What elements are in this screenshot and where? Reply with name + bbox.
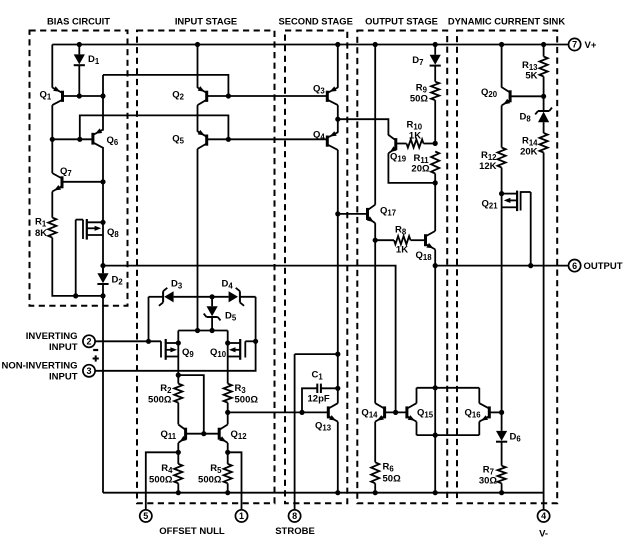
wire R8 left lead bbox=[375, 239, 394, 241]
transistor Q21 bbox=[502, 191, 531, 212]
wire Q10 gate lead bbox=[245, 340, 255, 342]
dashed box OUTPUT STAGE bbox=[357, 31, 447, 504]
label Q19 bbox=[390, 152, 407, 164]
label R6 bbox=[383, 462, 395, 474]
wire strobe vertical to pin 8 bbox=[294, 354, 296, 509]
label Q9 bbox=[182, 347, 194, 359]
wire R8 to Q18 base bbox=[411, 239, 426, 241]
node Q12 emitter / offset null bbox=[225, 450, 230, 455]
dashed box DYNAMIC CURRENT SINK bbox=[457, 31, 557, 504]
svg-text:1K: 1K bbox=[409, 131, 421, 142]
label D8 bbox=[520, 112, 532, 124]
transistor Q10 bbox=[228, 339, 246, 360]
node C1 left plate tap bbox=[299, 410, 304, 415]
wire Q16 base node to D6 bbox=[501, 412, 503, 431]
svg-text:30Ω: 30Ω bbox=[479, 476, 498, 487]
dashed box BIAS CIRCUIT bbox=[30, 31, 128, 306]
svg-text:DYNAMIC CURRENT SINK: DYNAMIC CURRENT SINK bbox=[448, 16, 565, 27]
wire Q9 column from source bar to R2 bbox=[177, 331, 179, 384]
wire Q21 source column down to Q16 base bbox=[501, 194, 503, 413]
wire Q18 emitter to output bbox=[434, 249, 436, 265]
svg-text:8K: 8K bbox=[35, 228, 47, 239]
svg-text:12pF: 12pF bbox=[308, 394, 330, 405]
svg-text:50Ω: 50Ω bbox=[410, 94, 429, 105]
wire R4 bottom to V- rail bbox=[177, 483, 179, 492]
label INPUT (inverting) bbox=[49, 342, 78, 353]
resistor R5 bbox=[224, 464, 232, 483]
diode D5 bbox=[204, 306, 221, 320]
label Q5 bbox=[172, 134, 184, 146]
label D4 bbox=[222, 279, 234, 291]
label Q2 bbox=[172, 90, 184, 102]
node Q7 base junction bbox=[100, 179, 105, 184]
node Q17 base junction bbox=[335, 211, 340, 216]
wire Q15 emitter to clamp bottom rail bbox=[416, 422, 418, 436]
node R2 / mirror base takeoff bbox=[176, 373, 181, 378]
wire inverting input to Q9 gate bbox=[95, 340, 161, 342]
label R5 value 500ohm bbox=[198, 475, 222, 486]
resistor R1 bbox=[48, 218, 56, 238]
transistor Q3 bbox=[327, 86, 338, 105]
wire C1 right lead bbox=[321, 387, 338, 389]
wire bias node to Q2 base loop bbox=[103, 75, 228, 96]
node Q5 base junction bbox=[226, 137, 231, 142]
wire clamp bottom rail bbox=[417, 434, 480, 436]
wire non-inverting input to Q10 gate node bbox=[95, 341, 255, 371]
diode D8 bbox=[535, 96, 552, 133]
diode D3 bbox=[159, 288, 174, 306]
wire Q4 collector node down to second stage bbox=[337, 214, 339, 354]
wire Q17 collector from rail bbox=[374, 45, 376, 205]
transistor Q9 bbox=[161, 339, 178, 360]
node Q8 gate on bias bottom rail bbox=[73, 293, 78, 298]
wire D2 node to Q14/Q15 base column bbox=[103, 266, 396, 413]
node Q5 current into source bar bbox=[195, 328, 200, 333]
label Q11 bbox=[161, 429, 177, 441]
dashed box INPUT STAGE bbox=[137, 31, 275, 504]
wire Q16 emitter to clamp bottom bbox=[478, 422, 480, 436]
wire Q15 collector to clamp top rail bbox=[416, 388, 418, 404]
label R10 bbox=[407, 120, 423, 132]
svg-text:50Ω: 50Ω bbox=[383, 474, 402, 485]
resistor R12 bbox=[498, 148, 506, 168]
svg-text:6: 6 bbox=[572, 261, 577, 271]
resistor R2 bbox=[174, 384, 182, 403]
transistor Q14 bbox=[375, 403, 384, 421]
wire Q5 collector down to input pair bbox=[197, 149, 199, 331]
label minus sign bbox=[93, 349, 98, 351]
wire output line to pin 6 bbox=[435, 265, 568, 267]
label Q15 bbox=[417, 408, 434, 420]
node Q6 base corner junction bbox=[77, 137, 82, 142]
label Q8 bbox=[107, 227, 119, 239]
wire D6 cathode to R7 bbox=[501, 442, 503, 466]
transistor Q16 bbox=[479, 403, 489, 421]
label Q18 bbox=[416, 250, 433, 262]
wire Q16 collector from clamp top bbox=[478, 388, 480, 404]
node Q17 collector on V+ rail bbox=[373, 42, 378, 47]
svg-text:3: 3 bbox=[86, 366, 91, 376]
node D1 anode on V+ rail bbox=[77, 42, 82, 47]
svg-text:2: 2 bbox=[86, 337, 91, 347]
wire R1 bottom to bias bottom rail bbox=[52, 238, 103, 296]
wire Q12 emitter to R5 bbox=[227, 443, 229, 464]
wire clamp top rail bbox=[417, 387, 480, 389]
node Q3 collector / Q19 loop junction bbox=[335, 117, 340, 122]
svg-text:12K: 12K bbox=[479, 161, 497, 172]
label V- bbox=[539, 529, 548, 540]
wire R13 top lead bbox=[543, 45, 545, 57]
transistor Q15 bbox=[407, 403, 417, 421]
wire D5 anode lead bbox=[211, 297, 213, 306]
transistor Q7 bbox=[52, 173, 62, 191]
wire D4 corner down to non-inverting node bbox=[255, 297, 257, 342]
svg-text:OFFSET NULL: OFFSET NULL bbox=[159, 526, 225, 537]
wire D1 cathode to Q1 base node bbox=[78, 65, 80, 96]
label D2 bbox=[112, 275, 124, 287]
node R4 on V- rail bbox=[176, 490, 181, 495]
wire Q4 collector down to Q17 base node bbox=[337, 150, 339, 214]
svg-text:V-: V- bbox=[539, 529, 548, 540]
capacitor C1 bbox=[317, 384, 321, 393]
node output at Q18 emitter bbox=[433, 263, 438, 268]
transistor Q1 bbox=[52, 86, 62, 105]
diode D7 bbox=[430, 55, 441, 66]
label D1 bbox=[88, 54, 100, 66]
node Q3 emitter on V+ rail bbox=[335, 42, 340, 47]
wire input pair source bar bbox=[178, 330, 227, 332]
label R1 bbox=[35, 217, 47, 229]
resistor R13 bbox=[540, 57, 548, 77]
node R13/D8/Q20 base junction bbox=[541, 94, 546, 99]
node Q21 drain junction bbox=[499, 191, 504, 196]
label R9 bbox=[416, 83, 428, 95]
label Q14 bbox=[361, 408, 378, 420]
wire D7 anode lead bbox=[434, 45, 436, 55]
label R13 value 5K bbox=[525, 71, 537, 82]
resistor R8 bbox=[394, 236, 411, 244]
wire R13 bottom lead bbox=[543, 77, 545, 97]
svg-text:STROBE: STROBE bbox=[275, 526, 315, 537]
node Q11/Q12 base junction bbox=[201, 431, 206, 436]
wire Q1 collector down bbox=[51, 105, 53, 173]
resistor R3 bbox=[224, 384, 232, 403]
wire D3 to center node bbox=[174, 296, 229, 298]
label Q7 bbox=[60, 166, 72, 178]
section title DYNAMIC CURRENT SINK bbox=[448, 16, 565, 27]
svg-text:OUTPUT: OUTPUT bbox=[584, 261, 623, 272]
label STROBE bbox=[275, 526, 315, 537]
svg-text:OUTPUT STAGE: OUTPUT STAGE bbox=[365, 16, 438, 27]
label Q12 bbox=[231, 429, 248, 441]
pin 4 bbox=[538, 510, 550, 522]
label D3 bbox=[171, 279, 183, 291]
diode D2 bbox=[97, 273, 108, 284]
node R7 on V- rail bbox=[499, 490, 504, 495]
label Q16 bbox=[465, 408, 482, 420]
label C1 bbox=[312, 370, 324, 382]
label R6 value 50ohm bbox=[383, 474, 402, 485]
dashed box SECOND STAGE bbox=[285, 31, 347, 504]
resistor R14 bbox=[540, 133, 548, 153]
svg-text:500Ω: 500Ω bbox=[198, 475, 222, 486]
wire Q20 base bbox=[510, 95, 543, 97]
label OFFSET NULL bbox=[159, 526, 225, 537]
label R14 value 20K bbox=[520, 147, 538, 158]
wire R11 bottom lead bbox=[434, 174, 436, 183]
svg-text:20Ω: 20Ω bbox=[411, 164, 430, 175]
wire Q6 base loop to Q5 base bbox=[80, 115, 229, 139]
label R14 bbox=[522, 136, 538, 148]
node Q1 base / bias rail junction bbox=[100, 93, 105, 98]
node Q8 drain junction bbox=[100, 220, 105, 225]
node Q11 emitter / offset null bbox=[176, 450, 181, 455]
label R8 value 1K bbox=[396, 245, 408, 256]
svg-text:1: 1 bbox=[239, 511, 244, 521]
transistor Q11 bbox=[178, 425, 186, 443]
svg-text:5K: 5K bbox=[525, 71, 537, 82]
node clamp top / output column bbox=[433, 385, 438, 390]
wire Q3 emitter from rail bbox=[337, 45, 339, 88]
wire Q3 node to Q19 emitter bbox=[338, 119, 389, 135]
section title SECOND STAGE bbox=[279, 16, 353, 27]
label R12 value 12K bbox=[479, 161, 497, 172]
wire Q11/Q12 base tie bbox=[186, 433, 220, 435]
node Q13 emitter on V- rail bbox=[335, 490, 340, 495]
diode D1 bbox=[74, 54, 85, 65]
wire Q17 emitter to R8 node bbox=[374, 223, 376, 240]
label R11 value 20ohm bbox=[411, 164, 430, 175]
wire Q3 collector down bbox=[337, 105, 339, 133]
label NON-INVERTING bbox=[2, 361, 78, 372]
node Q16 base junction bbox=[499, 410, 504, 415]
node Q9 drain junction bbox=[176, 340, 181, 345]
label Q20 bbox=[481, 87, 498, 99]
pin 7 bbox=[569, 38, 581, 50]
wire Q18 collector from R11 node bbox=[434, 183, 436, 231]
svg-text:1K: 1K bbox=[396, 245, 408, 256]
wire Q1 emitter from V+ rail bbox=[51, 45, 53, 88]
wire inverting input to D3 bbox=[149, 296, 164, 298]
wire Q14/Q15 base tie bbox=[385, 411, 407, 413]
wire R14 bottom to V- rail bbox=[543, 153, 545, 493]
node D1 cathode junction bbox=[77, 93, 82, 98]
wire R12 bottom to Q21 bbox=[501, 168, 503, 194]
svg-text:8: 8 bbox=[292, 511, 297, 521]
wire V- bottom rail bbox=[103, 492, 544, 494]
pin 6 bbox=[569, 260, 581, 272]
pin 1 bbox=[235, 510, 247, 522]
svg-text:V+: V+ bbox=[585, 40, 597, 51]
wire Q13 emitter to V- rail bbox=[337, 422, 339, 493]
wire D2 anode lead bbox=[102, 266, 104, 274]
wire Q6 collector down bbox=[102, 147, 104, 273]
resistor R9 bbox=[431, 82, 439, 101]
svg-text:SECOND STAGE: SECOND STAGE bbox=[279, 16, 353, 27]
wire V+ top rail bbox=[52, 44, 568, 46]
wire Q20 collector from rail bbox=[501, 45, 503, 88]
resistor R10 bbox=[407, 139, 424, 147]
node Q2 emitter on V+ rail bbox=[195, 42, 200, 47]
node Q21 gate on output line bbox=[528, 263, 533, 268]
label R4 value 500ohm bbox=[149, 475, 173, 486]
label D7 bbox=[412, 55, 423, 67]
label Q21 bbox=[482, 199, 499, 211]
svg-text:INPUT: INPUT bbox=[49, 342, 78, 353]
label R12 bbox=[481, 150, 497, 162]
wire R10 to junction bbox=[424, 143, 436, 145]
wire Q5 base to Q4 base bbox=[207, 138, 328, 140]
resistor R6 bbox=[371, 462, 379, 483]
wire D3 corner down to inverting line bbox=[148, 297, 150, 342]
section title OUTPUT STAGE bbox=[365, 16, 438, 27]
node R11 bottom junction bbox=[433, 180, 438, 185]
label R3 bbox=[235, 383, 247, 395]
label INPUT (non-inverting) bbox=[49, 372, 78, 383]
wire Q7 emitter to R1 bbox=[51, 192, 53, 218]
node strobe/C1 junction on Q13 collector bbox=[335, 352, 340, 357]
wire D5 cathode to source bar bbox=[211, 318, 213, 331]
wire R3 node to Q13 base bbox=[228, 411, 329, 413]
wire D7 cathode to R9 bbox=[434, 66, 436, 82]
wire Q10 column from source bar to R3 bbox=[227, 331, 229, 384]
node C1 right on Q13 collector bbox=[335, 386, 340, 391]
label plus sign bbox=[93, 355, 99, 361]
svg-text:500Ω: 500Ω bbox=[235, 395, 259, 406]
node inverting input / D3 junction bbox=[146, 339, 151, 344]
label R2 bbox=[160, 383, 172, 395]
resistor R7 bbox=[498, 466, 506, 484]
transistor Q12 bbox=[219, 425, 228, 443]
label R9 value 50ohm bbox=[410, 94, 429, 105]
svg-text:500Ω: 500Ω bbox=[148, 395, 172, 406]
node R6 on V- rail bbox=[373, 490, 378, 495]
wire Q17 emitter column down to Q14 bbox=[374, 240, 376, 403]
pin 3 bbox=[83, 365, 95, 377]
wire Q21 gate to output line bbox=[530, 192, 532, 266]
svg-text:INPUT: INPUT bbox=[49, 372, 78, 383]
label D5 bbox=[225, 311, 237, 323]
node D2 line junction bbox=[100, 263, 105, 268]
svg-text:4: 4 bbox=[541, 511, 546, 521]
label INVERTING bbox=[26, 331, 78, 342]
label Q13 bbox=[315, 421, 332, 433]
label R11 bbox=[414, 153, 430, 165]
transistor Q13 bbox=[328, 403, 338, 421]
diode D6 bbox=[496, 431, 507, 442]
transistor Q2 bbox=[198, 86, 207, 105]
wire R9 to R10/R11 node bbox=[434, 100, 436, 143]
resistor R4 bbox=[174, 464, 182, 483]
wire Q11 emitter to R4 bbox=[177, 443, 179, 464]
wire R6 bottom to V- rail bbox=[374, 483, 376, 492]
wire D4 to right corner bbox=[240, 296, 256, 298]
resistor R11 bbox=[431, 152, 439, 174]
svg-text:INVERTING: INVERTING bbox=[26, 331, 78, 342]
node Q2 base junction bbox=[226, 93, 231, 98]
transistor Q6 bbox=[93, 128, 103, 147]
transistor Q5 bbox=[198, 130, 207, 149]
node non-inverting input / D4 / Q10 gate bbox=[253, 339, 258, 344]
wire R3 bottom to Q12 collector bbox=[227, 403, 229, 425]
wire R7 bottom to V- rail bbox=[501, 483, 503, 492]
pin 8 bbox=[289, 510, 301, 522]
label Q4 bbox=[313, 130, 325, 142]
label R5 bbox=[210, 463, 222, 475]
node D7 anode on V+ rail bbox=[433, 42, 438, 47]
diode D4 bbox=[229, 288, 245, 306]
wire Q14 emitter to R6 bbox=[374, 422, 376, 463]
label R4 bbox=[161, 463, 173, 475]
node Q10 drain junction bbox=[225, 340, 230, 345]
wire V- rail to pin 4 bbox=[543, 493, 545, 510]
transistor Q19 bbox=[388, 135, 396, 153]
node R3 / second stage takeoff bbox=[225, 410, 230, 415]
label R10 value 1K bbox=[409, 131, 421, 142]
svg-text:20K: 20K bbox=[520, 147, 538, 158]
node D2 cathode on bias bottom rail bbox=[100, 293, 105, 298]
wire Q20 emitter to R12 bbox=[501, 106, 503, 148]
section title BIAS CIRCUIT bbox=[47, 16, 110, 27]
transistor Q20 bbox=[502, 87, 511, 105]
svg-text:500Ω: 500Ω bbox=[149, 475, 173, 486]
svg-text:NON-INVERTING: NON-INVERTING bbox=[2, 361, 78, 372]
section title INPUT STAGE bbox=[175, 16, 237, 27]
node Q1 collector / Q6 base junction bbox=[50, 137, 55, 142]
wire Q19 base to R10 bbox=[396, 143, 407, 145]
wire offset null pin 1 bbox=[228, 452, 242, 509]
label Q17 bbox=[380, 206, 396, 218]
node Q14/Q15 base junction bbox=[393, 410, 398, 415]
wire Q1 base bbox=[63, 95, 104, 97]
node Q17 emitter / R8 junction bbox=[373, 238, 378, 243]
node R5 on V- rail bbox=[225, 490, 230, 495]
label R1 value 8K bbox=[35, 228, 47, 239]
svg-text:BIAS CIRCUIT: BIAS CIRCUIT bbox=[47, 16, 110, 27]
wire strobe horizontal bbox=[295, 353, 338, 355]
pin 5 bbox=[140, 510, 152, 522]
wire R2 bottom to Q11 collector bbox=[177, 403, 179, 425]
wire Q13 collector vertical bbox=[337, 354, 339, 403]
node D5 on source bar bbox=[210, 328, 215, 333]
wire Q6 base bbox=[52, 138, 93, 140]
label OUTPUT bbox=[584, 261, 623, 272]
svg-text:INPUT STAGE: INPUT STAGE bbox=[175, 16, 237, 27]
svg-text:7: 7 bbox=[572, 40, 577, 50]
wire D2 cathode through bias box down bbox=[102, 284, 104, 493]
transistor Q17 bbox=[367, 205, 375, 223]
wire Q17 base bbox=[338, 213, 368, 215]
label Q3 bbox=[313, 84, 325, 96]
node D3/D4/D5 center bbox=[210, 294, 215, 299]
node R13 top on V+ rail bbox=[541, 42, 546, 47]
label R7 bbox=[483, 465, 494, 477]
label R13 bbox=[522, 60, 538, 72]
svg-text:5: 5 bbox=[143, 511, 148, 521]
wire Q19 collector loop to R11 bottom bbox=[388, 153, 435, 183]
wire offset null pin 5 bbox=[146, 452, 179, 509]
label Q6 bbox=[107, 135, 119, 147]
wire Q2 base to Q3 base bbox=[207, 95, 328, 97]
wire output column down to V- rail bbox=[434, 266, 436, 493]
label R7 value 30ohm bbox=[479, 476, 498, 487]
wire Q7 base bbox=[62, 181, 103, 183]
node Q20 collector on V+ rail bbox=[499, 42, 504, 47]
wire R5 bottom to V- rail bbox=[227, 483, 229, 492]
wire C1 left lead bbox=[302, 388, 317, 412]
wire x103 bias vertical upper bbox=[102, 75, 104, 131]
label V+ bbox=[585, 40, 597, 51]
